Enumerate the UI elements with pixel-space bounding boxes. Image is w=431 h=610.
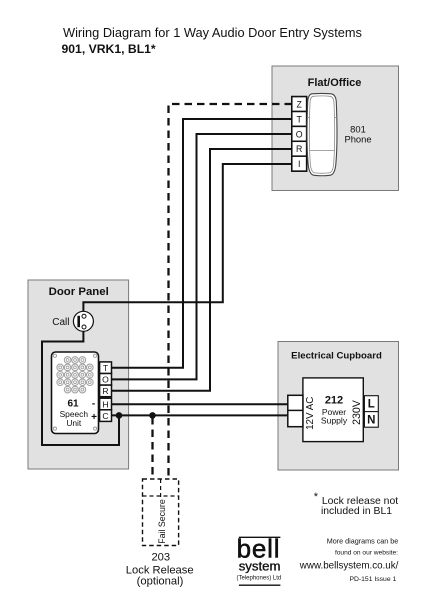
speech terminal O <box>100 374 112 386</box>
call button <box>73 311 93 331</box>
svg-text:T: T <box>297 114 303 124</box>
svg-text:Phone: Phone <box>344 133 371 144</box>
wire dashed C junction to lock release <box>151 417 153 479</box>
speech terminal H <box>100 398 112 410</box>
wire H speech unit to power supply <box>112 403 289 405</box>
wire call button bottom to C junction <box>42 331 119 445</box>
svg-text:Door Panel: Door Panel <box>49 286 109 298</box>
svg-text:212: 212 <box>325 394 343 406</box>
bell system logo <box>239 536 281 538</box>
svg-text:Z: Z <box>297 100 303 110</box>
svg-text:H: H <box>102 399 108 409</box>
svg-text:-: - <box>92 399 95 410</box>
svg-text:PD-151 Issue 1: PD-151 Issue 1 <box>349 576 396 583</box>
svg-text:(Telephones) Ltd: (Telephones) Ltd <box>237 576 282 582</box>
Electrical Cupboard enclosure box <box>278 342 399 471</box>
svg-text:901, VRK1, BL1*: 901, VRK1, BL1* <box>62 42 156 56</box>
lock release terminal divider horizontal <box>143 495 179 497</box>
svg-text:included in BL1: included in BL1 <box>321 506 392 517</box>
lock release terminal divider vertical <box>160 479 162 498</box>
phone terminal O <box>292 126 307 141</box>
phone terminal T <box>292 112 307 127</box>
phone terminal Z <box>292 97 307 112</box>
junction dot on C wire at call-button return <box>116 412 123 419</box>
svg-text:O: O <box>296 129 303 139</box>
speech unit body <box>52 352 99 434</box>
svg-text:203: 203 <box>151 552 170 564</box>
svg-text:+: + <box>91 412 97 423</box>
svg-text:found on our website:: found on our website: <box>335 550 398 557</box>
svg-text:I: I <box>298 159 300 169</box>
speech terminal R <box>100 385 112 397</box>
svg-text:230V: 230V <box>351 399 363 425</box>
wire C speech unit to power supply <box>112 414 289 416</box>
wire O phone to speech unit <box>112 134 293 379</box>
wire R phone to speech unit <box>112 149 293 391</box>
Flat/Office enclosure box <box>272 66 399 191</box>
power supply 212 box <box>303 378 363 442</box>
junction dot on C wire at lock-release tap <box>149 412 156 419</box>
svg-text:Wiring Diagram for 1 Way Audio: Wiring Diagram for 1 Way Audio Door Entr… <box>63 25 362 40</box>
svg-text:O: O <box>102 375 109 385</box>
phone handset side seams <box>307 117 337 119</box>
phone handset divider <box>310 150 334 152</box>
svg-text:*: * <box>314 491 319 503</box>
svg-text:(optional): (optional) <box>137 576 184 588</box>
12V AC terminal divider <box>288 409 303 411</box>
phone handset 801 outline <box>307 93 337 175</box>
lock release dashed box <box>143 479 179 546</box>
svg-text:Electrical Cupboard: Electrical Cupboard <box>291 351 382 362</box>
phone terminal R <box>292 141 307 156</box>
speech terminal C <box>100 410 112 422</box>
svg-text:T: T <box>103 363 109 373</box>
svg-text:12V AC: 12V AC <box>305 397 316 430</box>
svg-text:C: C <box>102 411 108 421</box>
12V AC terminal block <box>288 395 303 426</box>
speaker hole grid <box>57 357 93 393</box>
svg-text:R: R <box>102 386 108 396</box>
wire Z (dashed) phone Z to lock release <box>169 104 293 479</box>
Door Panel enclosure box <box>28 280 129 469</box>
wire T phone to speech unit <box>112 119 293 368</box>
speech unit screw holes <box>53 354 56 357</box>
svg-text:Fail Secure: Fail Secure <box>157 499 167 544</box>
svg-text:More diagrams can be: More diagrams can be <box>327 537 399 546</box>
svg-text:N: N <box>367 414 375 426</box>
speech terminal T <box>100 362 112 374</box>
svg-text:R: R <box>296 144 302 154</box>
svg-text:L: L <box>368 399 375 411</box>
svg-text:Flat/Office: Flat/Office <box>308 77 362 89</box>
terminal L/N block <box>364 396 378 428</box>
svg-text:Call: Call <box>52 317 69 328</box>
svg-text:www.bellsystem.co.uk/: www.bellsystem.co.uk/ <box>299 561 399 572</box>
phone terminal I <box>292 156 307 171</box>
phone terminal strip background <box>292 97 307 172</box>
svg-text:Supply: Supply <box>321 416 348 426</box>
svg-text:system: system <box>239 559 281 574</box>
wire I phone to call button top <box>83 164 292 312</box>
phone handset inner line <box>309 96 334 173</box>
svg-text:Unit: Unit <box>66 418 82 428</box>
